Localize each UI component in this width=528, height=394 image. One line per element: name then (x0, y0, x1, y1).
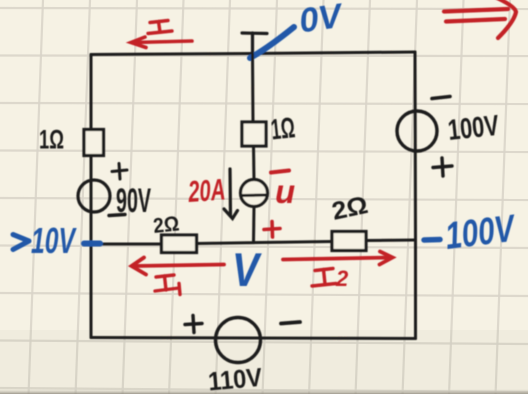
wire middle branch lower (252, 207, 256, 243)
polarity − of 90V (109, 215, 125, 216)
wire left lower (through 90V source down to bottom) (90, 156, 93, 338)
svg-text:0V: 0V (297, 0, 347, 40)
label I1 (red) (155, 275, 180, 295)
svg-text:2: 2 (335, 266, 349, 291)
svg-text:1Ω: 1Ω (39, 125, 64, 155)
wire middle left segment (91, 243, 162, 246)
node 0V terminal (242, 33, 267, 54)
current arrow I1 (red, left) (132, 258, 225, 275)
voltage source 110V (216, 318, 261, 363)
source u (circle with bar) (241, 180, 268, 207)
label 0V (blue) with pointer slash (250, 0, 347, 58)
polarity + of 110V (185, 316, 202, 333)
polarity + of u (red) (264, 222, 280, 238)
svg-text:100V: 100V (446, 110, 501, 147)
svg-text:1Ω: 1Ω (269, 112, 296, 146)
polarity + of 100V (433, 158, 452, 176)
voltage source 90V (78, 180, 110, 212)
voltage source 100V right (397, 111, 437, 151)
arrow 20A (black, down) (224, 169, 238, 219)
polarity − of 100V (432, 97, 450, 99)
node marker 100V (blue dash) (424, 237, 440, 243)
label 10V (blue with arrow) (13, 220, 77, 261)
label I (red) (148, 21, 172, 34)
resistor 1Ω middle (242, 122, 266, 146)
wire middle center segment (197, 242, 332, 244)
wire middle branch upper (251, 54, 255, 122)
wire top (91, 52, 415, 55)
resistor 2Ω right (332, 232, 366, 251)
label I2 (red) (312, 266, 349, 291)
svg-text:V: V (232, 243, 262, 296)
svg-text:2Ω: 2Ω (152, 212, 180, 238)
current arrow I (red) (131, 37, 192, 48)
polarity − of u (red) (271, 171, 289, 173)
wire middle branch between resistor and source u (252, 146, 256, 180)
wire bottom (through 110V source) (91, 338, 416, 339)
wire middle right segment (366, 239, 415, 243)
svg-text:110V: 110V (207, 362, 264, 394)
svg-text:10V: 10V (31, 220, 77, 261)
polarity + of 90V (112, 164, 127, 180)
polarity − of 110V (281, 322, 300, 324)
node marker 10V (blue dash) (84, 241, 100, 247)
svg-text:100V: 100V (443, 208, 519, 258)
doodle arrow top-right (red) (444, 0, 516, 38)
svg-text:20A: 20A (187, 173, 227, 209)
resistor 2Ω left (162, 235, 197, 253)
current arrow I2 (red, right) (283, 252, 393, 265)
wire left upper (90, 55, 93, 129)
wire right (through 100V source) (414, 52, 418, 339)
resistor 1Ω left (84, 130, 104, 156)
svg-text:u: u (275, 173, 295, 210)
